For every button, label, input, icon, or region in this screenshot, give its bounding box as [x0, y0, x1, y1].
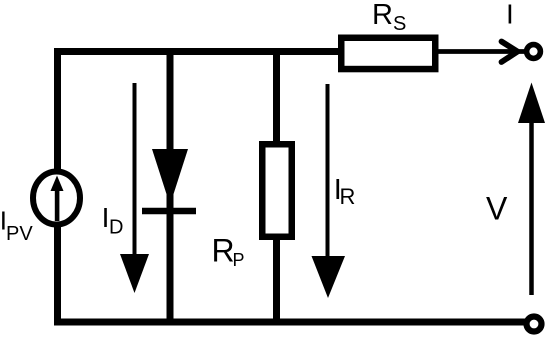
diode D1 cathode bar	[142, 208, 196, 215]
svg-text:R: R	[212, 233, 235, 269]
svg-text:P: P	[233, 250, 245, 270]
svg-text:S: S	[393, 13, 406, 35]
wire Rp branch lower segment	[273, 236, 280, 322]
arrow IR current	[326, 84, 330, 262]
label IR	[334, 174, 356, 209]
svg-text:PV: PV	[6, 223, 33, 245]
wire left branch lower segment	[54, 223, 61, 326]
wire Rp branch upper segment	[273, 48, 280, 145]
label RP	[212, 233, 245, 271]
arrow V voltage	[529, 120, 534, 295]
svg-text:V: V	[486, 191, 508, 227]
label IPV	[0, 206, 33, 246]
arrow ID current	[133, 83, 137, 262]
wire bottom bus	[54, 319, 525, 326]
resistor RP body	[262, 144, 292, 237]
current source IPV arrow	[51, 176, 64, 222]
wire diode branch	[167, 48, 174, 322]
diode D1 triangle	[152, 149, 188, 205]
label RS	[372, 0, 406, 35]
wire output to positive terminal	[438, 49, 526, 54]
terminal negative (bottom right)	[527, 317, 542, 332]
label ID	[102, 202, 124, 239]
svg-text:R: R	[340, 184, 356, 209]
svg-text:I: I	[506, 0, 514, 30]
terminal positive (top right)	[527, 45, 541, 59]
svg-text:D: D	[109, 217, 123, 239]
wire top bus (node between Ipv/diode/Rp and Rs)	[54, 48, 341, 55]
wire left branch upper segment	[54, 48, 61, 173]
svg-text:R: R	[372, 0, 393, 31]
arrow I output chevron	[502, 42, 518, 63]
current source IPV	[33, 172, 80, 225]
resistor RS body	[341, 38, 435, 69]
